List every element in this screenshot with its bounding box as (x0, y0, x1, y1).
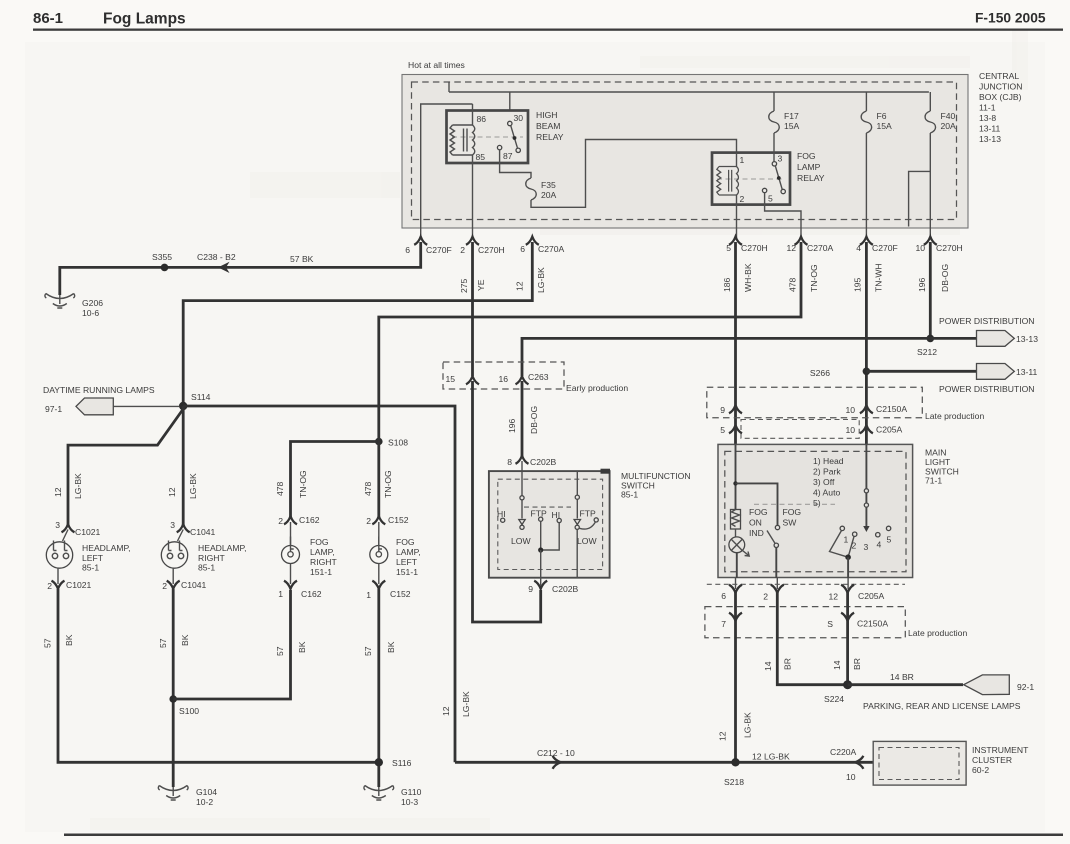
wire 14 BR from MLS pin 2 to S224 (777, 592, 847, 685)
connector C220A arrow (830, 747, 863, 782)
label 196 (917, 277, 927, 292)
wire pin87 to fuse F35 (500, 150, 531, 178)
svg-text:BR: BR (783, 658, 793, 670)
label POWER DISTRIBUTION bottom (939, 384, 1035, 394)
label Late production lower (908, 628, 967, 638)
svg-text:FOG: FOG (310, 537, 329, 547)
svg-text:BK: BK (297, 641, 307, 653)
connector 6 C270F (405, 237, 452, 255)
label 14 BR horizontal (890, 672, 914, 682)
high beam relay pin 85 label (476, 152, 486, 162)
multifunction switch FTP contact right with arm (580, 509, 599, 530)
label 57 BK headlamp left (43, 634, 75, 648)
svg-text:20A: 20A (541, 190, 557, 200)
wire 57 BK headlamp left (58, 589, 379, 762)
svg-text:13-13: 13-13 (979, 134, 1001, 144)
wire S100 to fog lamp right (173, 590, 290, 699)
svg-text:4: 4 (877, 540, 882, 550)
svg-text:13-8: 13-8 (979, 113, 996, 123)
svg-text:C270H: C270H (936, 243, 963, 253)
wire S224 to parking lamps arrow (848, 683, 963, 686)
svg-text:RELAY: RELAY (797, 173, 825, 183)
svg-text:DB-OG: DB-OG (940, 264, 950, 292)
svg-text:478: 478 (363, 481, 373, 496)
wire F35 to fog lamp relay pin 1 (531, 140, 737, 208)
svg-text:LEFT: LEFT (396, 557, 418, 567)
svg-text:10: 10 (845, 425, 855, 435)
svg-text:57: 57 (43, 638, 53, 648)
svg-text:LOW: LOW (577, 536, 597, 546)
svg-text:HI: HI (497, 509, 506, 519)
label 12 (515, 281, 525, 291)
label FOG LAMP LEFT 151-1 (396, 537, 421, 577)
connector 12 C205A below MLS (828, 585, 884, 602)
svg-text:1: 1 (740, 155, 745, 165)
svg-text:1) Head: 1) Head (813, 456, 844, 466)
svg-text:10: 10 (915, 243, 925, 253)
svg-text:Late production: Late production (925, 411, 984, 421)
wire S114 diagonal to headlamp left (68, 409, 183, 525)
label 12 LG-BK right of S218 (752, 752, 790, 762)
svg-text:12: 12 (786, 243, 796, 253)
wire 196 DB-OG from connector to S212 (929, 242, 932, 338)
svg-text:S218: S218 (724, 777, 744, 787)
svg-text:FTP: FTP (580, 509, 596, 519)
svg-text:10: 10 (846, 772, 856, 782)
fog lamp left lamp (370, 522, 388, 584)
svg-text:12: 12 (828, 592, 838, 602)
svg-text:14 BR: 14 BR (890, 672, 914, 682)
high beam relay coil (450, 104, 475, 163)
wire F40 branch stub (909, 171, 931, 226)
svg-text:11-1: 11-1 (979, 103, 996, 113)
svg-text:10-2: 10-2 (196, 797, 213, 807)
svg-text:2: 2 (278, 516, 283, 526)
connector 12 C270A (786, 237, 833, 253)
svg-text:C202B: C202B (552, 584, 579, 594)
fog lamp relay pin 2 label (740, 194, 745, 204)
label switch positions list (813, 456, 844, 508)
svg-text:60-2: 60-2 (972, 765, 989, 775)
connector 4 C270F (856, 237, 898, 253)
label Early production (566, 383, 628, 393)
bottom page rule (64, 834, 1063, 837)
rotary switch arm (830, 531, 855, 579)
svg-text:5: 5 (768, 194, 773, 204)
svg-text:DAYTIME RUNNING LAMPS: DAYTIME RUNNING LAMPS (43, 385, 155, 395)
svg-text:10-3: 10-3 (401, 797, 418, 807)
svg-text:3: 3 (864, 542, 869, 552)
label INSTRUMENT CLUSTER 60-2 (972, 745, 1029, 775)
multifunction switch FTP and HI contacts middle (531, 509, 562, 579)
connector 1 C162 (278, 581, 322, 599)
connector 2 C270H (460, 237, 505, 255)
wire 275 YE from C263 down to junction with multifunction switch output (473, 381, 541, 622)
label 14 BR right (832, 658, 862, 670)
label LOW right (577, 536, 597, 546)
svg-text:C1021: C1021 (75, 527, 101, 537)
svg-text:13-11: 13-11 (1016, 367, 1038, 377)
svg-text:85: 85 (476, 152, 486, 162)
fog lamp relay coil (717, 153, 739, 205)
wire fog relay pin2 to connector (736, 205, 738, 239)
fog lamp relay U-FLR box (712, 153, 790, 205)
svg-text:F40: F40 (941, 111, 956, 121)
instrument cluster box (873, 741, 966, 785)
svg-text:FOG: FOG (749, 507, 768, 517)
label 14 BR left (763, 658, 793, 671)
svg-text:9: 9 (720, 405, 725, 415)
svg-text:2) Park: 2) Park (813, 467, 841, 477)
wire 12 LG-BK from connector to S114 (183, 242, 532, 406)
svg-text:C2150A: C2150A (857, 619, 888, 629)
svg-text:IND: IND (749, 528, 764, 538)
label HEADLAMP RIGHT 85-1 (198, 543, 247, 573)
svg-text:G206: G206 (82, 298, 103, 308)
label HEADLAMP LEFT 85-1 (82, 543, 131, 573)
connector 2 below MLS (763, 585, 784, 602)
label MULTIFUNCTION SWITCH 85-1 (621, 471, 691, 500)
svg-text:1: 1 (844, 535, 849, 545)
connector 6 C270A (520, 237, 564, 254)
label HIGH BEAM RELAY (536, 110, 564, 142)
label LG-BK vertical (461, 691, 471, 717)
connector 5 C270H (726, 237, 768, 253)
svg-text:5): 5) (813, 498, 821, 508)
label YE (476, 279, 486, 291)
wire S212 to C263 pin 16 (522, 338, 930, 376)
node S212 and wire to power distribution 13-13 (917, 335, 976, 357)
svg-text:10-6: 10-6 (82, 308, 99, 318)
svg-text:F17: F17 (784, 111, 799, 121)
connector 10 C270H (915, 237, 962, 253)
label WH-BK (743, 263, 753, 292)
node S100 (169, 695, 199, 716)
svg-text:BEAM: BEAM (536, 121, 560, 131)
svg-text:Fog Lamps: Fog Lamps (103, 11, 186, 28)
wire 12 LG-BK from MLS pin 6 to S218 (734, 592, 737, 762)
svg-text:10: 10 (845, 405, 855, 415)
ground G104 (158, 786, 217, 808)
label 57 BK fog left (363, 641, 396, 656)
svg-text:478: 478 (788, 277, 798, 292)
node S355 (152, 252, 172, 271)
connector row C205A upper (720, 420, 902, 439)
wire drop to high beam relay pin 30 (509, 92, 511, 121)
svg-text:TN-OG: TN-OG (298, 470, 308, 498)
label TN-WH (874, 263, 884, 292)
svg-text:S114: S114 (191, 392, 211, 402)
svg-text:15A: 15A (877, 121, 893, 131)
svg-text:S355: S355 (152, 252, 172, 262)
late production connector box C2150A lower (705, 607, 905, 638)
svg-text:LIGHT: LIGHT (925, 457, 951, 467)
high beam relay pin 86 label (477, 114, 487, 124)
svg-text:71-1: 71-1 (925, 476, 942, 486)
svg-text:S266: S266 (810, 368, 830, 378)
multifunction switch box (489, 469, 610, 578)
svg-text:LOW: LOW (511, 536, 531, 546)
label LOW left (511, 536, 531, 546)
connector 9 C202B (528, 581, 578, 594)
connector 2 C152 (366, 515, 409, 526)
svg-text:FOG: FOG (797, 151, 816, 161)
svg-text:275: 275 (459, 278, 469, 293)
svg-text:478: 478 (275, 481, 285, 496)
svg-text:1: 1 (366, 590, 371, 600)
label TN-OG (809, 264, 819, 292)
wire CJB feed C270F to relay pin 86 (421, 104, 473, 239)
svg-text:195: 195 (853, 277, 863, 292)
svg-text:3: 3 (55, 520, 60, 530)
label C238 - B2 (197, 252, 236, 262)
svg-text:57 BK: 57 BK (290, 254, 314, 264)
fog lamp right lamp (282, 522, 300, 584)
label MAIN LIGHT SWITCH 71-1 (925, 448, 959, 486)
fuse F35 20A (526, 178, 557, 200)
svg-text:2: 2 (763, 592, 768, 602)
svg-text:C1021: C1021 (66, 580, 92, 590)
wire 14 BR from MLS pin 12 to S224 (846, 592, 849, 685)
svg-text:1: 1 (278, 589, 283, 599)
svg-text:C263: C263 (528, 372, 549, 382)
svg-text:RIGHT: RIGHT (310, 557, 337, 567)
svg-text:57: 57 (363, 646, 373, 656)
svg-text:PARKING, REAR AND LICENSE LAMP: PARKING, REAR AND LICENSE LAMPS (863, 701, 1021, 711)
svg-text:12: 12 (515, 281, 525, 291)
wire CJB hot bus (449, 91, 929, 93)
svg-text:JUNCTION: JUNCTION (979, 82, 1022, 92)
svg-text:C2150A: C2150A (876, 404, 907, 414)
svg-text:TN-WH: TN-WH (874, 263, 884, 292)
svg-text:196: 196 (917, 277, 927, 292)
fog lamp relay pin 5 (762, 188, 773, 203)
svg-text:ON: ON (749, 518, 762, 528)
svg-text:87: 87 (503, 151, 513, 161)
svg-text:FOG: FOG (783, 507, 802, 517)
svg-text:12 LG-BK: 12 LG-BK (752, 752, 790, 762)
svg-text:Late production: Late production (908, 628, 967, 638)
wire 57 BK headlamp right through S100 to ground (172, 589, 175, 787)
svg-text:HEADLAMP,: HEADLAMP, (82, 543, 131, 553)
svg-text:3: 3 (170, 520, 175, 530)
svg-text:HIGH: HIGH (536, 110, 557, 120)
svg-text:12: 12 (53, 487, 63, 497)
svg-text:LAMP,: LAMP, (310, 547, 335, 557)
label 478 (788, 277, 798, 292)
svg-text:SW: SW (783, 518, 798, 528)
svg-text:2: 2 (162, 581, 167, 591)
svg-text:FTP: FTP (531, 509, 547, 519)
svg-text:LEFT: LEFT (82, 553, 104, 563)
label LG-BK headlamp left (73, 473, 83, 499)
node S116 (375, 758, 412, 768)
svg-text:3) Off: 3) Off (813, 477, 835, 487)
wire S114 down to headlamp right (182, 406, 185, 525)
fuse F40 20A (925, 92, 956, 239)
wire fog relay pin5 to connector 12 C270A (765, 193, 801, 239)
node S266 and wire to power distribution 13-11 (810, 368, 976, 379)
svg-text:6: 6 (721, 591, 726, 601)
svg-text:LG-BK: LG-BK (73, 473, 83, 499)
svg-text:BOX (CJB): BOX (CJB) (979, 92, 1022, 102)
label Hot at all times (408, 60, 465, 70)
svg-text:4: 4 (856, 243, 861, 253)
wire 196 DB-OG from C263 to C202B (521, 381, 524, 457)
multifunction switch right wire with contacts (574, 471, 580, 578)
svg-text:14: 14 (763, 661, 773, 671)
svg-text:TN-OG: TN-OG (809, 264, 819, 292)
label POWER DISTRIBUTION top (939, 316, 1035, 326)
wire 57 BK fog left to S116 (377, 589, 380, 787)
label PARKING REAR AND LICENSE LAMPS (863, 701, 1021, 711)
svg-text:151-1: 151-1 (396, 567, 418, 577)
connector 2 C162 (278, 515, 320, 526)
svg-text:LG-BK: LG-BK (743, 712, 753, 738)
svg-text:S116: S116 (392, 758, 412, 768)
wire 186 WH-BK from connector to main light switch (734, 242, 737, 444)
svg-text:5: 5 (720, 425, 725, 435)
connector 2 C1021 (47, 580, 91, 591)
svg-text:C152: C152 (390, 589, 411, 599)
label 195 (853, 277, 863, 292)
main light switch box (718, 444, 913, 577)
svg-text:POWER DISTRIBUTION: POWER DISTRIBUTION (939, 384, 1035, 394)
svg-text:C238 - B2: C238 - B2 (197, 252, 236, 262)
svg-text:C162: C162 (301, 589, 322, 599)
late production connector box C2150A upper (707, 387, 923, 417)
daytime running lamps arrow 97-1 (43, 385, 179, 415)
main light switch right wire with contacts (863, 444, 869, 532)
svg-text:16: 16 (498, 374, 508, 384)
svg-text:Hot at all times: Hot at all times (408, 60, 465, 70)
svg-text:C202B: C202B (530, 457, 557, 467)
svg-text:BK: BK (386, 641, 396, 653)
svg-text:G104: G104 (196, 787, 217, 797)
svg-text:2: 2 (366, 516, 371, 526)
svg-text:2: 2 (740, 194, 745, 204)
label 186 (722, 277, 732, 292)
label 12 vertical (441, 706, 451, 716)
svg-text:196: 196 (507, 418, 517, 433)
wire S114 to LG-BK junction column (183, 406, 455, 762)
svg-text:C270A: C270A (807, 243, 834, 253)
label 478 fog left (363, 470, 393, 498)
svg-text:C162: C162 (299, 515, 320, 525)
svg-text:POWER DISTRIBUTION: POWER DISTRIBUTION (939, 316, 1035, 326)
multifunction switch HI contact left (497, 509, 506, 522)
svg-text:14: 14 (832, 660, 842, 670)
svg-text:G110: G110 (401, 787, 422, 797)
svg-text:FOG: FOG (396, 537, 415, 547)
svg-text:MAIN: MAIN (925, 448, 946, 458)
svg-text:8: 8 (507, 457, 512, 467)
svg-text:YE: YE (476, 279, 486, 291)
multifunction switch left wire with contacts (519, 461, 525, 529)
header rule (33, 29, 1063, 31)
high beam relay pin 87 (497, 145, 512, 161)
fog switch contacts (767, 525, 780, 578)
svg-text:S212: S212 (917, 347, 937, 357)
svg-text:C270H: C270H (478, 245, 505, 255)
svg-text:S224: S224 (824, 694, 844, 704)
svg-text:C270A: C270A (538, 244, 565, 254)
svg-text:S: S (827, 619, 833, 629)
svg-text:13-11: 13-11 (979, 124, 1001, 134)
headlamp left lamp (46, 530, 72, 585)
svg-text:INSTRUMENT: INSTRUMENT (972, 745, 1029, 755)
svg-text:86: 86 (477, 114, 487, 124)
high beam relay pin 30 (508, 113, 524, 126)
svg-text:F6: F6 (877, 111, 887, 121)
power distribution arrow 13-11 (977, 364, 1038, 380)
label FOG LAMP RIGHT 151-1 (310, 537, 337, 577)
main light switch left wire and branch node (733, 444, 777, 525)
svg-text:TN-OG: TN-OG (383, 470, 393, 498)
connector C263 early production box (443, 362, 564, 389)
ground G206 (45, 294, 103, 319)
label CENTRAL JUNCTION BOX (CJB) (979, 71, 1022, 144)
wire 478 TN-OG from connector 12 C270A (379, 242, 801, 438)
connector 1 C152 (366, 581, 411, 600)
svg-text:12: 12 (718, 731, 728, 741)
svg-text:BK: BK (180, 634, 190, 646)
svg-text:S100: S100 (179, 706, 199, 716)
svg-text:RELAY: RELAY (536, 132, 564, 142)
svg-text:RIGHT: RIGHT (198, 553, 225, 563)
label 196 (507, 418, 517, 433)
svg-text:C1041: C1041 (181, 580, 207, 590)
connector C212-10 arrow (537, 748, 575, 769)
wire C212-10 horizontal to instrument cluster (455, 761, 873, 764)
svg-text:5: 5 (726, 243, 731, 253)
svg-text:F-150 2005: F-150 2005 (975, 11, 1046, 26)
label 57 BK headlamp right (158, 634, 190, 648)
svg-text:7: 7 (721, 619, 726, 629)
wire 275 YE from connector to C263 pin 15 (471, 242, 474, 376)
svg-text:LAMP: LAMP (797, 162, 821, 172)
svg-text:186: 186 (722, 277, 732, 292)
svg-text:S108: S108 (388, 438, 408, 448)
rotary switch position contacts 1-5 (840, 526, 891, 552)
svg-text:CLUSTER: CLUSTER (972, 755, 1012, 765)
fuse F17 15A (769, 92, 800, 162)
wire CJB top bus stub (448, 82, 450, 93)
fog on ind lamp (729, 529, 749, 578)
wire S108 to fog lamp right drop (291, 442, 379, 518)
parking lamps arrow 92-1 (964, 675, 1035, 695)
fuse F6 15A (861, 92, 892, 239)
wire 195 TN-WH from connector to S266 (865, 242, 868, 444)
fog on ind resistor (731, 510, 741, 530)
svg-text:C270H: C270H (741, 243, 768, 253)
svg-text:F35: F35 (541, 180, 556, 190)
svg-text:WH-BK: WH-BK (743, 263, 753, 292)
label FOG LAMP RELAY (797, 151, 825, 183)
svg-text:C152: C152 (388, 515, 409, 525)
label 57 BK fog right (275, 641, 307, 656)
label DB-OG (940, 264, 950, 292)
svg-text:2: 2 (460, 245, 465, 255)
svg-text:LG-BK: LG-BK (461, 691, 471, 717)
label 275 (459, 278, 469, 293)
wire relay pin85 down to connector (472, 163, 474, 239)
connector 3 C1041 (170, 520, 215, 537)
node S224 (824, 680, 852, 704)
central junction box CJB (402, 75, 968, 229)
svg-text:15: 15 (445, 374, 455, 384)
header F-150 2005 (975, 11, 1046, 26)
